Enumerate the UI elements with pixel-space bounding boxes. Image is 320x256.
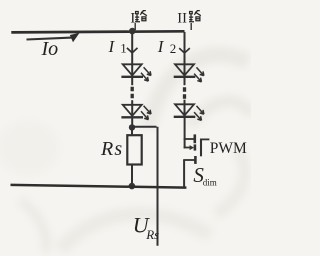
wire through LED — [131, 64, 133, 85]
resistor RS box — [127, 135, 141, 164]
emission arrow a — [144, 106, 151, 114]
mosfet Q1 drain stub — [184, 138, 195, 140]
svg-text:PWM: PWM — [210, 140, 247, 157]
svg-text:1: 1 — [120, 40, 127, 55]
svg-text:Rs: Rs — [145, 227, 159, 242]
current arrow Io head — [70, 33, 80, 42]
svg-text:dim: dim — [203, 178, 217, 188]
current arrowhead I1 — [127, 48, 138, 53]
mosfet Q1 body contact tick — [194, 144, 197, 150]
emission arrow a — [197, 67, 204, 75]
LED D1 (branch I top) — [121, 64, 151, 85]
mosfet Q1 source wire — [183, 160, 185, 188]
mosfet Q1 gate bar — [200, 139, 202, 157]
mosfet Q1 source stub — [183, 159, 196, 161]
watermark tint mid left — [0, 120, 60, 176]
bottom rail wire — [11, 185, 187, 188]
current arrow Io shaft — [27, 38, 73, 40]
mosfet Q1 body arrowhead — [190, 145, 194, 150]
ellipsis dashes branch II — [183, 87, 186, 99]
label U Rs — [133, 213, 159, 243]
branch I upper wire — [131, 32, 133, 65]
cathode bar — [121, 76, 143, 78]
label branch II hanzi 路 — [189, 11, 201, 22]
mosfet Q1 gate lead to PWM — [201, 138, 209, 140]
svg-text:II: II — [177, 10, 187, 26]
svg-text:Rs: Rs — [100, 138, 123, 160]
anode triangle — [123, 105, 142, 116]
watermark swirl bottom — [20, 200, 210, 252]
sense stub wire to the right — [132, 127, 158, 246]
emission arrow b — [194, 112, 201, 120]
mosfet Q1 source contact tick — [194, 156, 197, 164]
label branch I hanzi 路 — [135, 11, 147, 22]
branch II upper wire — [184, 32, 186, 65]
watermark swirl right middle — [216, 150, 245, 214]
cathode bar — [174, 116, 196, 118]
watermark swirl top right — [148, 55, 251, 128]
LED D4 (branch II bottom) — [174, 100, 204, 121]
label I2 — [157, 37, 177, 56]
wire through LED — [184, 100, 186, 118]
emission arrow a — [144, 67, 151, 75]
cathode bar — [121, 116, 143, 118]
wire through LED — [184, 64, 186, 85]
emission arrow b — [141, 111, 148, 119]
junction node C (Rs / bottom rail) — [129, 183, 136, 190]
mosfet Q1 body stub — [184, 147, 190, 149]
ellipsis dashes branch I — [131, 87, 134, 99]
wire resistor to bottom rail — [131, 165, 133, 188]
junction node A (branch I / top rail) — [129, 28, 136, 35]
emission arrow b — [194, 74, 201, 82]
mosfet Q1 drain contact tick — [194, 134, 197, 143]
anode triangle — [123, 64, 142, 75]
anode triangle — [175, 104, 194, 115]
cathode bar — [174, 76, 196, 78]
emission arrow a — [197, 106, 204, 114]
junction node B (top of Rs / sense tap) — [129, 124, 135, 130]
anode triangle — [175, 64, 194, 75]
emission arrow b — [141, 73, 148, 81]
top rail wire — [11, 31, 184, 32]
LED D3 (branch II top) — [174, 64, 204, 85]
LED D2 (branch I bottom) — [121, 100, 151, 124]
wire through LED — [131, 100, 133, 124]
label S dim — [193, 163, 216, 188]
leader tick branch II — [190, 23, 192, 30]
svg-text:2: 2 — [170, 41, 177, 56]
mosfet Q1 drain wire — [184, 117, 186, 149]
label I1 — [108, 37, 127, 56]
svg-text:Io: Io — [41, 38, 59, 60]
leader tick branch I — [134, 23, 136, 30]
current arrowhead I2 — [179, 48, 190, 53]
wire into resistor — [131, 127, 133, 135]
